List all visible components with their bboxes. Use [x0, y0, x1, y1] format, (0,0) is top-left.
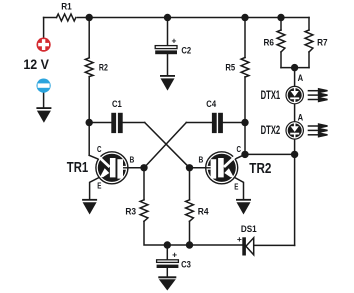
wire TR1 emitter stub — [90, 176, 103, 199]
svg-text:R2: R2 — [99, 63, 108, 73]
wire C3 to ground — [166, 268, 168, 276]
wire R4 top — [189, 168, 191, 200]
svg-text:B: B — [199, 155, 204, 164]
led DTX2 — [286, 122, 303, 139]
capacitor C2 — [155, 36, 177, 55]
wire left drop to battery plus — [43, 18, 45, 38]
wire R6 R7 join — [281, 67, 309, 69]
svg-text:DTX1: DTX1 — [261, 90, 281, 102]
wire R6 top stub — [280, 18, 282, 31]
wire TR2 emitter stub — [231, 176, 244, 199]
svg-text:R7: R7 — [317, 38, 328, 48]
node C1 left — [86, 119, 93, 126]
svg-text:R4: R4 — [198, 207, 209, 217]
wire blue terminal to ground — [43, 93, 45, 108]
wire C4 right — [223, 122, 245, 124]
svg-text:R5: R5 — [225, 63, 235, 73]
wire C1 right — [123, 122, 145, 124]
wire C1 diagonal to TR2 base — [145, 123, 190, 168]
wire R4 bottom — [189, 221, 191, 245]
node TR2 collector — [241, 151, 248, 158]
resistor R2 — [85, 58, 93, 77]
diode DS1 — [237, 234, 254, 256]
transistor TR1 — [96, 152, 128, 184]
wire R5 to TR2 collector node — [244, 77, 246, 154]
node R4 bottom — [186, 241, 193, 248]
wire C3 top — [166, 245, 168, 259]
ground C3 — [158, 276, 176, 290]
capacitor C4 — [212, 113, 223, 133]
svg-text:R6: R6 — [264, 38, 275, 48]
wire R7 bottom — [308, 52, 310, 68]
resistor R5 — [241, 58, 249, 78]
wire R3 top — [143, 168, 145, 200]
wire R7 top stub — [308, 18, 310, 31]
node rail C2 — [164, 14, 171, 21]
node led column — [291, 151, 298, 158]
wire C1 left — [89, 122, 111, 124]
node C3 top — [164, 241, 171, 248]
node TR2 base — [186, 164, 193, 171]
svg-text:+: + — [172, 249, 177, 259]
svg-text:C4: C4 — [206, 99, 216, 109]
wire TR1 base — [128, 167, 144, 169]
svg-text:+: + — [237, 234, 242, 244]
node TR1 base — [140, 164, 147, 171]
resistor R6 — [277, 30, 285, 52]
svg-text:DS1: DS1 — [241, 224, 257, 234]
svg-text:DTX2: DTX2 — [261, 125, 281, 137]
wire R5 branch — [244, 18, 246, 58]
wire TR2 base — [190, 167, 206, 169]
svg-text:C2: C2 — [181, 45, 191, 55]
node rail R5 — [241, 14, 248, 21]
resistor R3 — [140, 200, 148, 222]
wire R2 branch — [88, 18, 90, 58]
node rail R2 — [86, 14, 93, 21]
svg-text:E: E — [234, 182, 239, 191]
led DTX2 light arrows — [308, 124, 328, 137]
ground battery — [36, 107, 51, 123]
svg-text:R3: R3 — [125, 207, 136, 217]
svg-text:B: B — [130, 155, 135, 164]
ground C2 — [160, 75, 175, 91]
resistor R4 — [186, 200, 194, 222]
wire DTX1 to DTX2 — [294, 104, 296, 121]
wire DS1 right — [254, 244, 295, 246]
wire TR2 collector stub — [232, 154, 245, 160]
wire C2 drop — [167, 18, 169, 46]
svg-text:A: A — [298, 113, 304, 123]
svg-text:E: E — [97, 182, 102, 191]
resistor R7 — [305, 30, 313, 52]
ground TR2 emitter — [236, 199, 251, 215]
wire top rail — [44, 17, 309, 19]
svg-text:C3: C3 — [181, 260, 191, 270]
wire TR2 collector to led column — [245, 153, 295, 155]
wire C4 left — [186, 122, 212, 124]
svg-text:C: C — [237, 145, 242, 154]
led DTX1 — [286, 86, 303, 103]
svg-text:+: + — [172, 36, 177, 46]
svg-text:C: C — [97, 145, 102, 154]
svg-text:12 V: 12 V — [23, 56, 49, 72]
node rail R6 — [277, 14, 284, 21]
node C4 right — [241, 119, 248, 126]
wire R3 bottom corner — [144, 221, 243, 245]
transistor TR2 — [206, 152, 238, 184]
led DTX1 light arrows — [308, 89, 328, 102]
battery plus terminal — [37, 38, 51, 52]
wire R6 bottom — [280, 52, 282, 68]
ground TR1 emitter — [82, 199, 97, 215]
wire join to DTX1 — [294, 68, 296, 86]
wire DTX2 down to DS1 corner — [294, 140, 296, 246]
capacitor C3 — [157, 249, 179, 268]
wire TR1 collector stub — [89, 155, 102, 160]
svg-text:TR2: TR2 — [249, 160, 271, 177]
svg-text:R1: R1 — [61, 1, 71, 11]
node R6 R7 bottom — [291, 64, 298, 71]
capacitor C1 — [111, 113, 122, 133]
wire R2 to collector node — [88, 77, 90, 156]
battery minus terminal — [37, 79, 51, 93]
svg-text:A: A — [298, 73, 304, 83]
svg-text:C1: C1 — [112, 99, 122, 109]
resistor R1 — [57, 14, 76, 21]
svg-text:TR1: TR1 — [67, 159, 88, 176]
wire C2 to ground — [167, 54, 169, 75]
wire C4 left diagonal to TR1 base — [144, 123, 186, 168]
